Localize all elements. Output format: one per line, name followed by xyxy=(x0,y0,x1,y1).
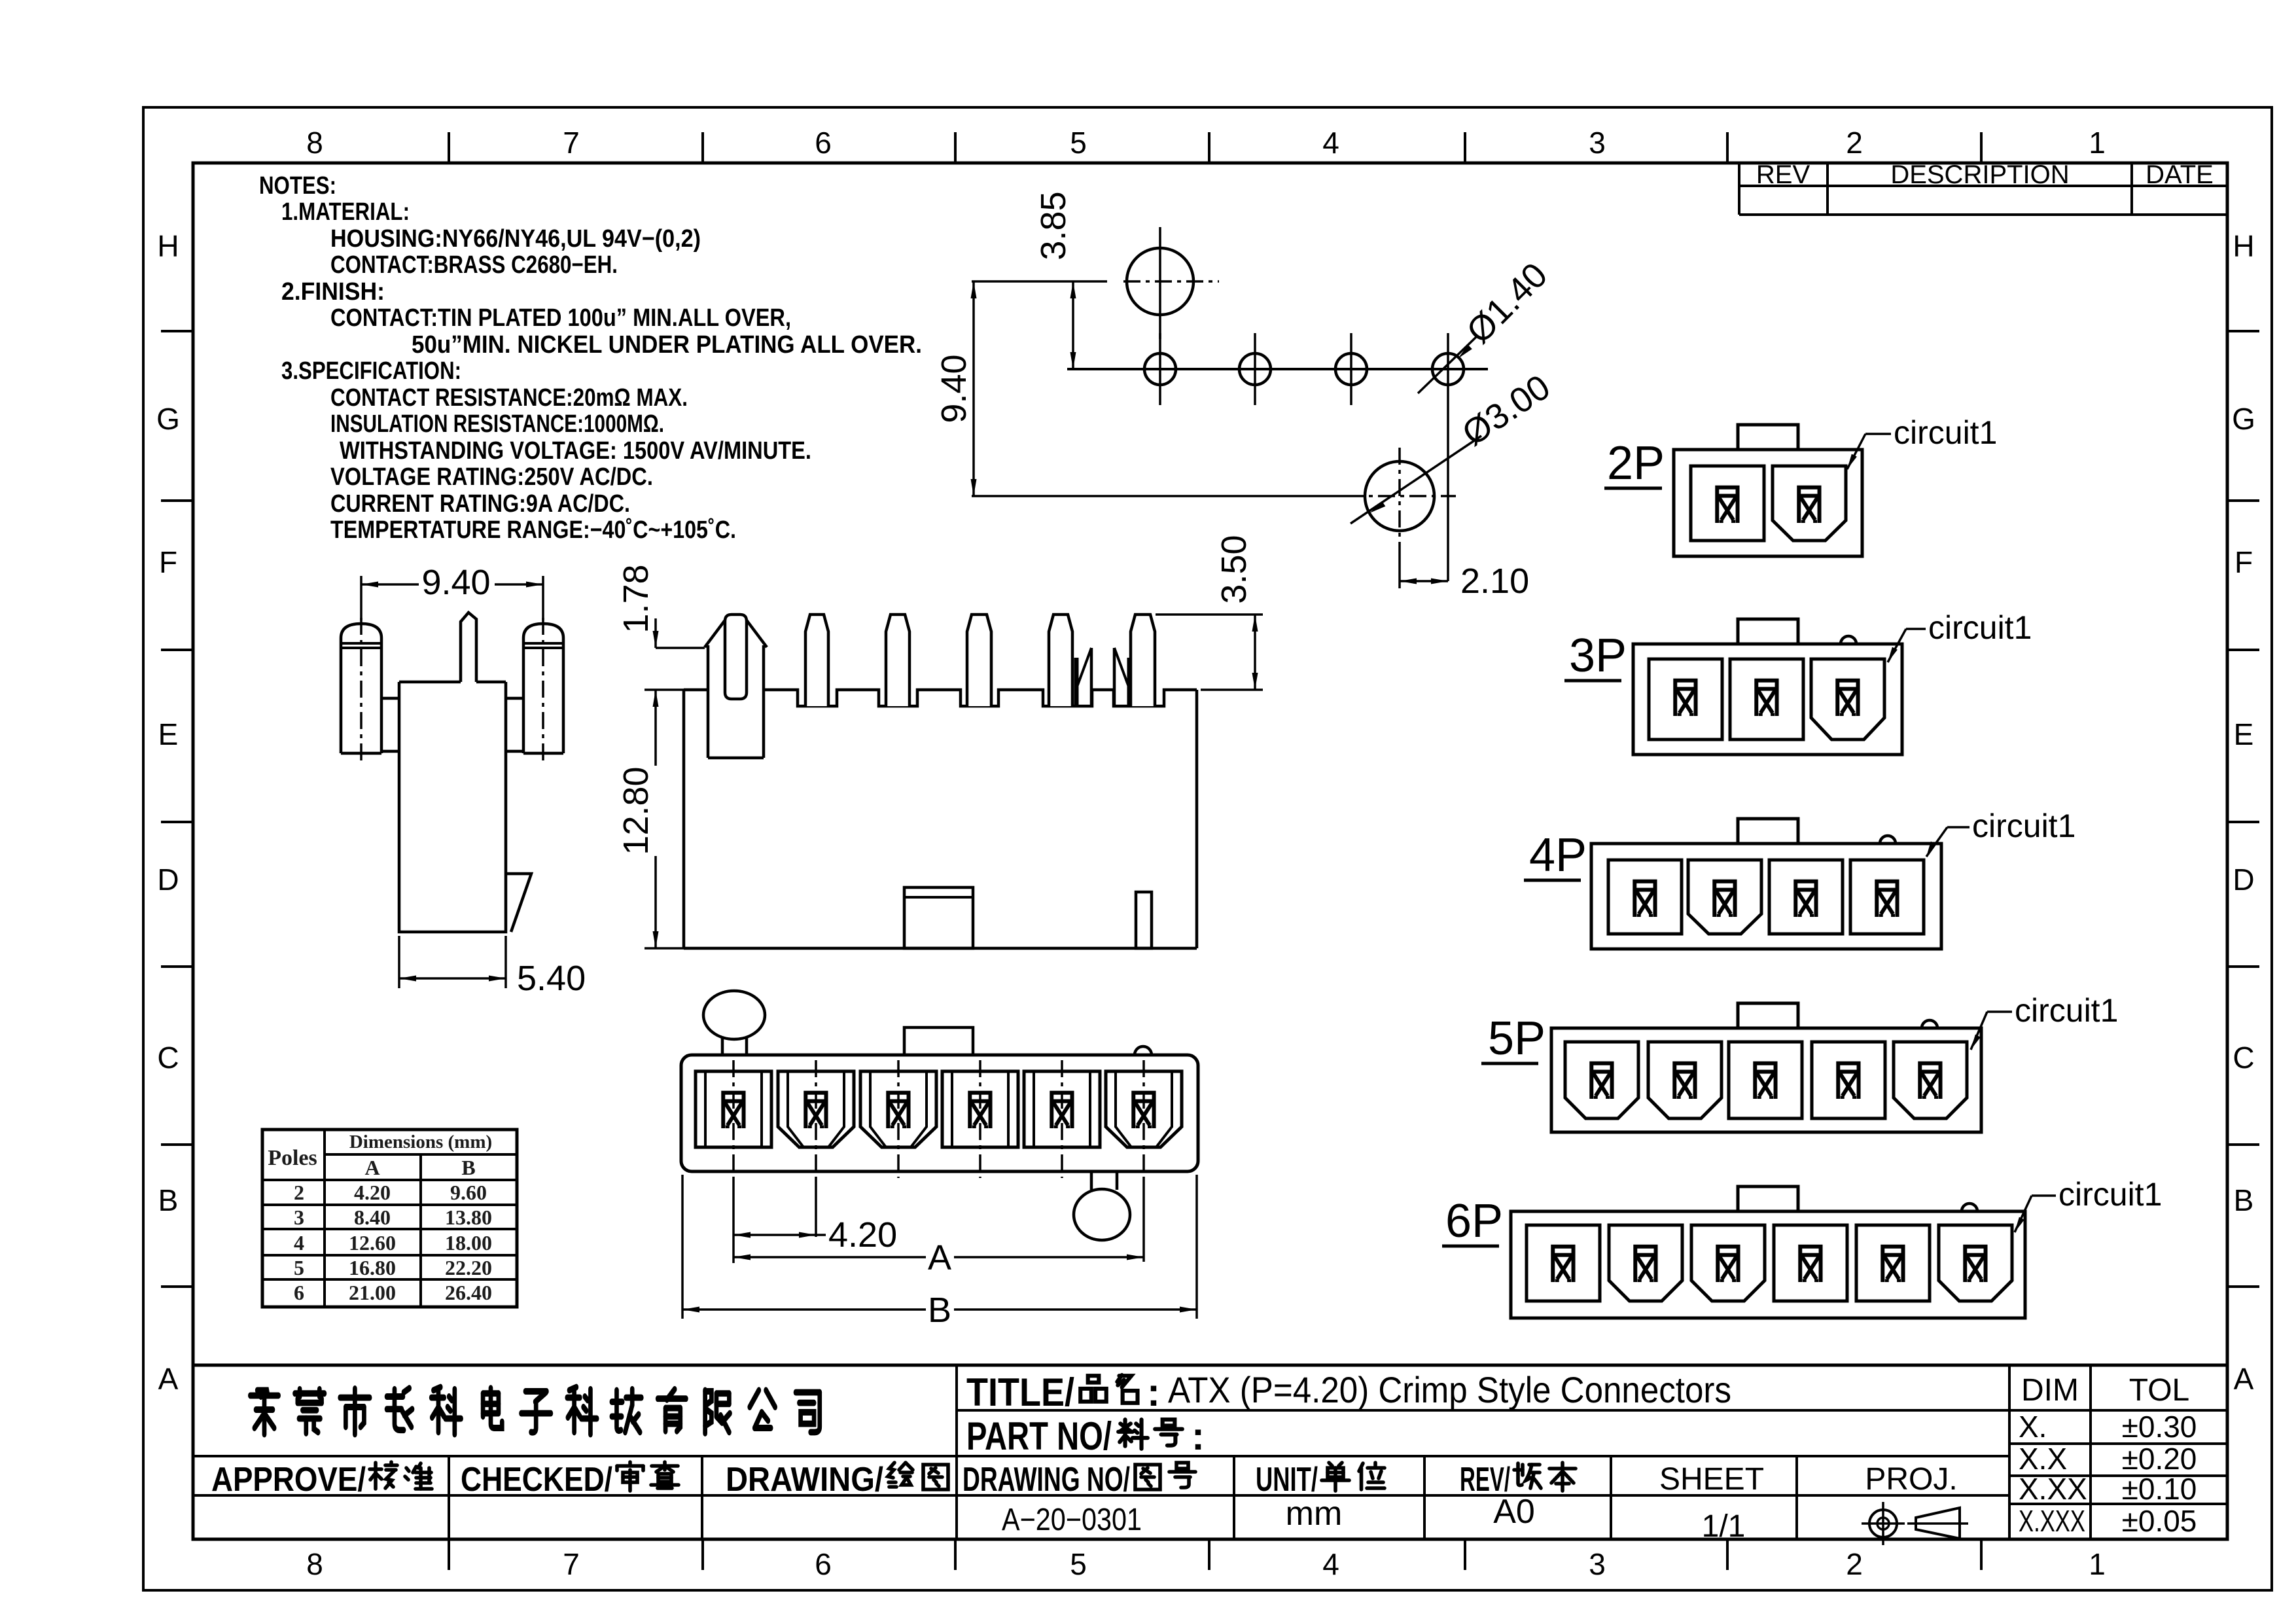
connector 4P housing xyxy=(1591,844,1941,949)
svg-text:7: 7 xyxy=(563,126,580,160)
svg-text:X.XXX: X.XXX xyxy=(2019,1504,2085,1538)
connector 2P top tab xyxy=(1738,425,1798,450)
front view pin 4 xyxy=(967,615,991,706)
svg-text:C: C xyxy=(2233,1041,2254,1075)
svg-text:6: 6 xyxy=(815,1547,832,1581)
connector 3P circuit1 leader xyxy=(1888,647,1898,662)
svg-text:1: 1 xyxy=(2089,126,2106,160)
svg-text:4.20: 4.20 xyxy=(354,1181,391,1204)
side view dimension 9.40 xyxy=(360,576,362,620)
svg-text:B: B xyxy=(928,1291,951,1330)
side view right pin xyxy=(523,624,563,753)
front view pin 6 xyxy=(1131,615,1155,706)
bottom view cavity 2 with crimp contact xyxy=(778,1071,854,1147)
svg-text:9.60: 9.60 xyxy=(450,1181,487,1204)
bottom view top center tab xyxy=(904,1027,973,1055)
svg-text:5: 5 xyxy=(1070,1547,1087,1581)
svg-text::: : xyxy=(1192,1414,1205,1458)
svg-text:circuit1: circuit1 xyxy=(2015,992,2118,1029)
front view pin 3 xyxy=(886,615,910,706)
svg-text:X.X: X.X xyxy=(2019,1442,2067,1476)
front view pin 1 retention xyxy=(725,615,747,699)
svg-text:13.80: 13.80 xyxy=(445,1205,492,1229)
connector 6P cavity 4 with crimp contact xyxy=(1774,1225,1847,1301)
svg-text:1.MATERIAL:: 1.MATERIAL: xyxy=(281,198,410,226)
svg-text:CONTACT RESISTANCE:20mΩ MAX.: CONTACT RESISTANCE:20mΩ MAX. xyxy=(330,384,688,412)
bottom view top right bump xyxy=(1135,1046,1152,1055)
connector 3P housing xyxy=(1633,644,1902,755)
connector 6P cavity 6 with crimp contact xyxy=(1939,1225,2012,1301)
connector 4P cavity 4 with crimp contact xyxy=(1850,860,1924,934)
svg-text:5: 5 xyxy=(1070,126,1087,160)
svg-text:DRAWING/: DRAWING/ xyxy=(726,1461,883,1499)
bottom view cavity 5 centerline xyxy=(1061,1060,1063,1178)
svg-text:3.50: 3.50 xyxy=(1214,535,1254,603)
dimension 3.85 xyxy=(1072,281,1074,369)
connector 6P cavity 5 with crimp contact xyxy=(1856,1225,1930,1301)
connector 2P housing xyxy=(1674,450,1862,556)
bottom view housing rounded outline xyxy=(681,1055,1198,1171)
svg-text:H: H xyxy=(2233,229,2254,263)
side view left pin xyxy=(341,624,381,753)
bottom view cavity 6 centerline xyxy=(1142,1060,1145,1178)
front view bottom right rib xyxy=(1136,892,1152,948)
top view small hole 4 centerline extended xyxy=(1447,333,1449,581)
dimension 2.10 xyxy=(1400,580,1448,582)
svg-text:5: 5 xyxy=(294,1256,304,1279)
svg-text:A: A xyxy=(158,1362,179,1396)
svg-text:5P: 5P xyxy=(1488,1012,1545,1065)
company name chinese characters xyxy=(250,1390,278,1434)
svg-text:6: 6 xyxy=(815,126,832,160)
connector 3P cavity 1 with crimp contact xyxy=(1649,659,1722,740)
bottom view cavity 4 with crimp contact xyxy=(942,1071,1018,1147)
svg-text:X.XX: X.XX xyxy=(2019,1472,2087,1506)
svg-text:±0.30: ±0.30 xyxy=(2122,1410,2197,1444)
svg-text:G: G xyxy=(156,402,180,436)
bottom view cavity 3 with crimp contact xyxy=(860,1071,936,1147)
svg-text:NOTES:: NOTES: xyxy=(259,172,336,200)
bottom view cavity 6 with crimp contact xyxy=(1106,1071,1182,1147)
dimension 9.40 vertical xyxy=(972,280,1107,283)
svg-text:9.40: 9.40 xyxy=(421,563,490,602)
top view big hole bottom centerlines xyxy=(1398,448,1401,546)
svg-text:TITLE/: TITLE/ xyxy=(966,1370,1074,1414)
top view big hole top centerlines xyxy=(1159,227,1161,339)
front view dimension 1.78 xyxy=(656,647,705,649)
svg-text::: : xyxy=(1147,1370,1160,1414)
side view left pin centerline xyxy=(360,618,362,766)
bottom view top left latch ear xyxy=(703,991,765,1039)
svg-text:2: 2 xyxy=(1846,1547,1863,1581)
connector 4P top bump xyxy=(1880,836,1896,844)
svg-text:circuit1: circuit1 xyxy=(2058,1176,2162,1213)
svg-text:CHECKED/: CHECKED/ xyxy=(461,1461,612,1499)
dimension leader diameter 1.40 xyxy=(1418,336,1477,393)
svg-text:12.80: 12.80 xyxy=(616,766,656,855)
svg-text:circuit1: circuit1 xyxy=(1972,808,2075,844)
svg-text:3.85: 3.85 xyxy=(1034,191,1073,260)
connector 6P top bump xyxy=(1962,1204,1977,1211)
svg-text:B: B xyxy=(2234,1183,2254,1217)
side view flanges xyxy=(381,697,399,700)
connector 2P circuit1 leader xyxy=(1847,454,1857,469)
svg-text:8.40: 8.40 xyxy=(354,1205,391,1229)
svg-text:SHEET: SHEET xyxy=(1659,1462,1764,1497)
connector 3P top bump xyxy=(1841,636,1856,644)
svg-text:WITHSTANDING VOLTAGE: 1500V: WITHSTANDING VOLTAGE: 1500V AV/MINUTE. xyxy=(340,437,811,465)
svg-text:CURRENT RATING:9A AC/DC.: CURRENT RATING:9A AC/DC. xyxy=(330,490,630,518)
svg-text:circuit1: circuit1 xyxy=(1928,609,2032,646)
connector 5P cavity 4 with crimp contact xyxy=(1812,1042,1885,1118)
top view hole pattern: big hole top xyxy=(1127,248,1193,315)
left border tick marks xyxy=(161,330,193,332)
svg-text:PART NO/: PART NO/ xyxy=(966,1414,1112,1458)
svg-text:1: 1 xyxy=(2089,1547,2106,1581)
connector 5P cavity 2 with crimp contact xyxy=(1648,1042,1722,1118)
svg-text:±0.10: ±0.10 xyxy=(2122,1472,2197,1506)
svg-text:A: A xyxy=(364,1156,380,1179)
svg-text:±0.20: ±0.20 xyxy=(2122,1442,2197,1476)
connector 6P circuit1 leader xyxy=(2015,1217,2024,1232)
svg-text:4P: 4P xyxy=(1529,829,1587,882)
svg-text:mm: mm xyxy=(1286,1495,1343,1533)
svg-text:8: 8 xyxy=(306,1547,323,1581)
title block grid lines xyxy=(193,1364,2227,1367)
top view big hole bottom xyxy=(1365,461,1434,531)
svg-text:50u”MIN. NICKEL UNDER PLATI: 50u”MIN. NICKEL UNDER PLATING ALL OVER. xyxy=(412,331,922,359)
side view right pin centerline xyxy=(542,618,544,766)
svg-text:4.20: 4.20 xyxy=(828,1215,897,1255)
svg-text:CONTACT:BRASS C2680−EH.: CONTACT:BRASS C2680−EH. xyxy=(330,251,618,279)
connector 5P top tab xyxy=(1738,1003,1798,1028)
svg-text:26.40: 26.40 xyxy=(445,1281,492,1304)
svg-text:3P: 3P xyxy=(1569,630,1627,682)
bottom view dimension B xyxy=(681,1175,684,1319)
svg-text:2: 2 xyxy=(1846,126,1863,160)
svg-text:B: B xyxy=(158,1183,179,1217)
svg-text:3: 3 xyxy=(294,1205,304,1229)
top view line through small holes xyxy=(1067,368,1488,370)
svg-text:12.60: 12.60 xyxy=(349,1231,396,1255)
svg-text:REV: REV xyxy=(1756,160,1810,189)
top view small hole 2 with centerline xyxy=(1239,353,1271,385)
bottom view cavity 5 with crimp contact xyxy=(1024,1071,1100,1147)
front view latch wedge right of pin 5 xyxy=(1074,658,1079,705)
front view latch wedge left of pin 6 xyxy=(1127,658,1132,705)
svg-text:PROJ.: PROJ. xyxy=(1865,1462,1957,1497)
svg-text:D: D xyxy=(157,863,179,897)
svg-text:A: A xyxy=(928,1238,951,1277)
connector 2P cavity 2 with crimp contact xyxy=(1773,466,1846,541)
connector 6P cavity 3 with crimp contact xyxy=(1691,1225,1765,1301)
front view latch tower xyxy=(707,645,710,758)
side view dimension 5.40 xyxy=(398,936,400,988)
bottom view dimension 4.20 xyxy=(733,1234,826,1236)
svg-text:Dimensions (mm): Dimensions (mm) xyxy=(349,1132,492,1152)
svg-text:2.FINISH:: 2.FINISH: xyxy=(281,278,385,306)
bottom view dimension A xyxy=(733,1256,926,1258)
svg-text:A−20−0301: A−20−0301 xyxy=(1002,1503,1142,1537)
bottom view cavity 2 centerline xyxy=(815,1060,817,1178)
svg-text:2: 2 xyxy=(294,1181,304,1204)
svg-text:5.40: 5.40 xyxy=(517,959,586,998)
svg-text:HOUSING:NY66/NY46,UL 94V−(0,2: HOUSING:NY66/NY46,UL 94V−(0,2) xyxy=(330,225,701,253)
svg-text:A0: A0 xyxy=(1493,1493,1535,1531)
svg-text:3.SPECIFICATION:: 3.SPECIFICATION: xyxy=(281,357,461,385)
svg-text:D: D xyxy=(2233,863,2254,897)
side view housing body xyxy=(399,682,506,932)
svg-text:DRAWING NO/: DRAWING NO/ xyxy=(963,1461,1130,1499)
poles dimensions table xyxy=(262,1130,517,1307)
bottom view cavity 1 centerline xyxy=(732,1060,735,1178)
svg-text:4: 4 xyxy=(1322,126,1339,160)
right border tick marks xyxy=(2227,330,2259,332)
svg-text:ATX (P=4.20) Crimp Style C: ATX (P=4.20) Crimp Style Connectors xyxy=(1168,1369,1731,1410)
connector 2P cavity 1 with crimp contact xyxy=(1691,466,1764,541)
connector 4P top tab xyxy=(1738,819,1798,844)
connector 5P cavity 5 with crimp contact xyxy=(1894,1042,1967,1118)
bottom border tick marks xyxy=(448,1539,450,1570)
front view bottom center tab xyxy=(904,887,973,948)
top border tick marks xyxy=(448,132,450,163)
svg-text:DIM: DIM xyxy=(2021,1373,2079,1408)
svg-text:4: 4 xyxy=(1322,1547,1339,1581)
svg-text:H: H xyxy=(157,229,179,263)
front view dimension 3.50 xyxy=(1156,613,1263,616)
svg-text:circuit1: circuit1 xyxy=(1894,414,1997,451)
svg-text:TOL: TOL xyxy=(2129,1373,2189,1408)
connector 4P cavity 2 with crimp contact xyxy=(1688,860,1761,934)
svg-text:DESCRIPTION: DESCRIPTION xyxy=(1890,160,2069,189)
svg-text:2P: 2P xyxy=(1607,437,1665,490)
svg-text:8: 8 xyxy=(306,126,323,160)
projection symbol cone xyxy=(1916,1508,1960,1539)
svg-text:22.20: 22.20 xyxy=(445,1256,492,1279)
svg-text:G: G xyxy=(2232,402,2255,436)
svg-text:Poles: Poles xyxy=(268,1146,317,1170)
connector 4P cavity 1 with crimp contact xyxy=(1608,860,1682,934)
svg-text:16.80: 16.80 xyxy=(349,1256,396,1279)
drawing inner border frame xyxy=(193,163,2227,1539)
svg-text:DATE: DATE xyxy=(2146,160,2214,189)
svg-text:CONTACT:TIN PLATED 100u” MI: CONTACT:TIN PLATED 100u” MIN.ALL OVER, xyxy=(330,304,791,332)
svg-text:INSULATION RESISTANCE:1000MΩ.: INSULATION RESISTANCE:1000MΩ. xyxy=(330,410,664,438)
svg-text:6: 6 xyxy=(294,1281,304,1304)
svg-text:4: 4 xyxy=(294,1231,304,1255)
svg-text:7: 7 xyxy=(563,1547,580,1581)
front view dimension 12.80 xyxy=(645,688,684,691)
svg-text:1.78: 1.78 xyxy=(616,564,656,633)
connector 5P housing xyxy=(1551,1028,1981,1132)
svg-text:3: 3 xyxy=(1589,126,1606,160)
bottom view cavity 4 centerline xyxy=(979,1060,981,1178)
connector 4P cavity 3 with crimp contact xyxy=(1769,860,1843,934)
side view top solder tab xyxy=(461,613,476,682)
svg-text:6P: 6P xyxy=(1445,1195,1503,1247)
side view bottom latch hook xyxy=(506,874,531,932)
bottom view bottom right latch ear xyxy=(1074,1189,1130,1240)
front view housing outline with notches xyxy=(684,690,1197,706)
bottom view cavity 3 centerline xyxy=(897,1060,900,1178)
connector 5P circuit1 leader xyxy=(1971,1035,1981,1050)
svg-text:9.40: 9.40 xyxy=(934,354,974,423)
revision table top right xyxy=(1738,163,1740,215)
connector 5P cavity 1 with crimp contact xyxy=(1565,1042,1638,1118)
svg-text:F: F xyxy=(159,545,177,579)
projection symbol circle target xyxy=(1869,1510,1897,1537)
svg-text:TEMPERTATURE RANGE:−40˚C~+105: TEMPERTATURE RANGE:−40˚C~+105˚C. xyxy=(330,516,736,544)
svg-text:B: B xyxy=(461,1156,475,1179)
svg-text:E: E xyxy=(2234,717,2254,751)
svg-text:18.00: 18.00 xyxy=(445,1231,492,1255)
connector 6P housing xyxy=(1511,1211,2025,1318)
connector 6P cavity 1 with crimp contact xyxy=(1527,1225,1600,1301)
svg-text:X.: X. xyxy=(2019,1410,2047,1444)
svg-text:F: F xyxy=(2234,545,2253,579)
svg-text:2.10: 2.10 xyxy=(1460,562,1529,601)
connector 3P cavity 2 with crimp contact xyxy=(1730,659,1803,740)
svg-text:C: C xyxy=(157,1041,179,1075)
svg-text:VOLTAGE RATING:250V AC/DC.: VOLTAGE RATING:250V AC/DC. xyxy=(330,463,653,491)
connector 6P top tab xyxy=(1738,1186,1798,1211)
top view small hole 1 with centerline xyxy=(1144,353,1176,385)
svg-text:A: A xyxy=(2234,1362,2254,1396)
front view pin 2 xyxy=(805,615,828,706)
svg-text:3: 3 xyxy=(1589,1547,1606,1581)
connector 5P cavity 3 with crimp contact xyxy=(1729,1042,1802,1118)
connector 6P cavity 2 with crimp contact xyxy=(1609,1225,1682,1301)
svg-text:E: E xyxy=(158,717,179,751)
svg-text:UNIT/: UNIT/ xyxy=(1256,1461,1318,1499)
connector 4P circuit1 leader xyxy=(1926,842,1936,857)
connector 5P top bump xyxy=(1922,1020,1937,1028)
svg-text:1/1: 1/1 xyxy=(1702,1509,1746,1544)
connector 3P top tab xyxy=(1738,619,1798,644)
svg-text:±0.05: ±0.05 xyxy=(2122,1504,2197,1538)
svg-text:APPROVE/: APPROVE/ xyxy=(211,1461,366,1499)
svg-text:21.00: 21.00 xyxy=(349,1281,396,1304)
front view pin 5 xyxy=(1049,615,1072,706)
connector 3P cavity 3 with crimp contact xyxy=(1811,659,1884,740)
top view small hole 3 with centerline xyxy=(1335,353,1367,385)
dimension leader diameter 3.00 xyxy=(1351,436,1481,524)
bottom view cavity 1 with crimp contact xyxy=(696,1071,771,1147)
